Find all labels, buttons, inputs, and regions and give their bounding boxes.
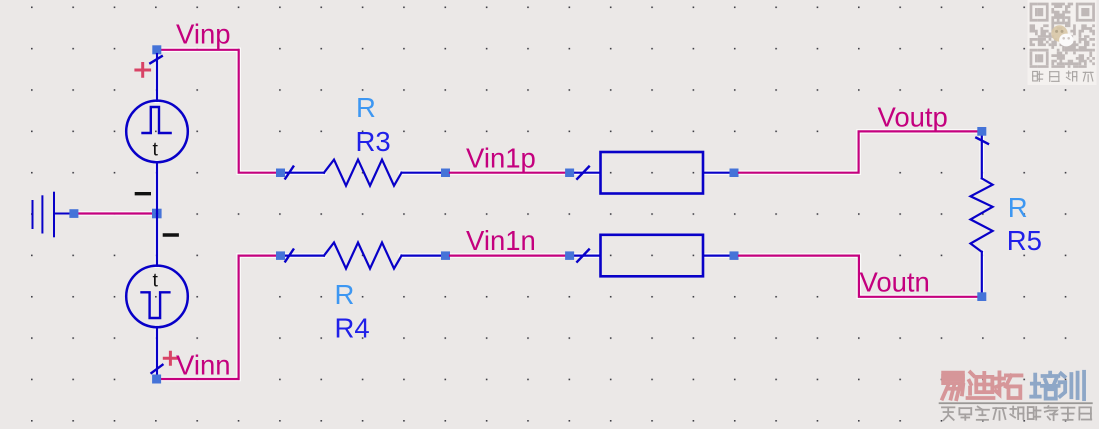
node ground port <box>69 209 78 218</box>
svg-text:Vin1p: Vin1p <box>466 143 536 174</box>
V1 plus <box>136 64 150 77</box>
QR code panel <box>1028 0 1097 85</box>
svg-text:R: R <box>335 279 355 310</box>
node R3 left <box>276 169 285 178</box>
svg-text:Vinn: Vinn <box>176 350 231 381</box>
watermark logo <box>939 372 1093 420</box>
V2 minus <box>164 233 177 236</box>
node U1 right <box>730 169 739 178</box>
node R5 top <box>977 127 986 136</box>
svg-text:R: R <box>1008 192 1028 223</box>
wire Voutp net <box>739 131 977 172</box>
R3 pin slash <box>285 167 293 179</box>
node R5 bottom <box>977 292 986 301</box>
node R3 right <box>441 169 450 178</box>
svg-text:R3: R3 <box>356 126 391 157</box>
node R4 left <box>276 251 285 260</box>
V1 pin slash <box>150 56 162 63</box>
watermark title yi di tuo pei xun <box>942 373 963 400</box>
device box U1 <box>574 152 730 194</box>
V2 plus <box>164 352 176 364</box>
V2 pin slash <box>152 365 163 373</box>
watermark subtitle <box>942 407 954 420</box>
node R4 right <box>441 251 450 260</box>
resistor R4 <box>285 243 441 269</box>
ground <box>33 193 70 237</box>
svg-text:Vinp: Vinp <box>176 19 231 50</box>
watermark divider <box>939 402 1093 404</box>
V1 minus <box>136 192 149 195</box>
voltage source V2 <box>126 214 188 375</box>
wire Vin1p net <box>450 172 565 174</box>
resistor R5 <box>971 136 993 292</box>
svg-text:R4: R4 <box>335 312 370 343</box>
WIRES-HALO <box>78 50 982 379</box>
voltage source V1 <box>126 54 188 213</box>
wire Vinp net <box>161 50 276 173</box>
R4 pin slash <box>285 250 293 262</box>
svg-text:R: R <box>356 92 376 123</box>
node U2 right <box>730 251 739 260</box>
U1 pin slash <box>577 167 589 179</box>
device box U2 <box>574 235 730 276</box>
QR code modules <box>1030 3 1095 68</box>
wire ground to junction <box>78 212 152 214</box>
svg-text:R5: R5 <box>1007 225 1042 256</box>
wire Vin1n net <box>450 255 565 257</box>
QR panel background <box>1028 0 1097 85</box>
node Vinn port <box>152 375 161 384</box>
wire Voutn net <box>739 256 977 297</box>
resistor R3 <box>285 160 441 186</box>
node U1 left <box>565 169 574 178</box>
wire Vinn net <box>161 256 276 379</box>
junction node <box>152 209 162 219</box>
svg-text:Vin1n: Vin1n <box>466 225 536 256</box>
svg-text:t: t <box>153 139 159 161</box>
U2 pin slash <box>577 250 589 262</box>
node U2 left <box>565 251 574 260</box>
R5 pin slash <box>976 138 988 144</box>
node Vinp port <box>152 45 161 54</box>
svg-text:Voutp: Voutp <box>878 102 948 133</box>
svg-text:t: t <box>153 270 159 292</box>
QR wechat icon <box>1051 25 1073 46</box>
svg-text:Voutn: Voutn <box>860 266 930 297</box>
QR caption wei xin lian xi <box>1033 71 1043 81</box>
